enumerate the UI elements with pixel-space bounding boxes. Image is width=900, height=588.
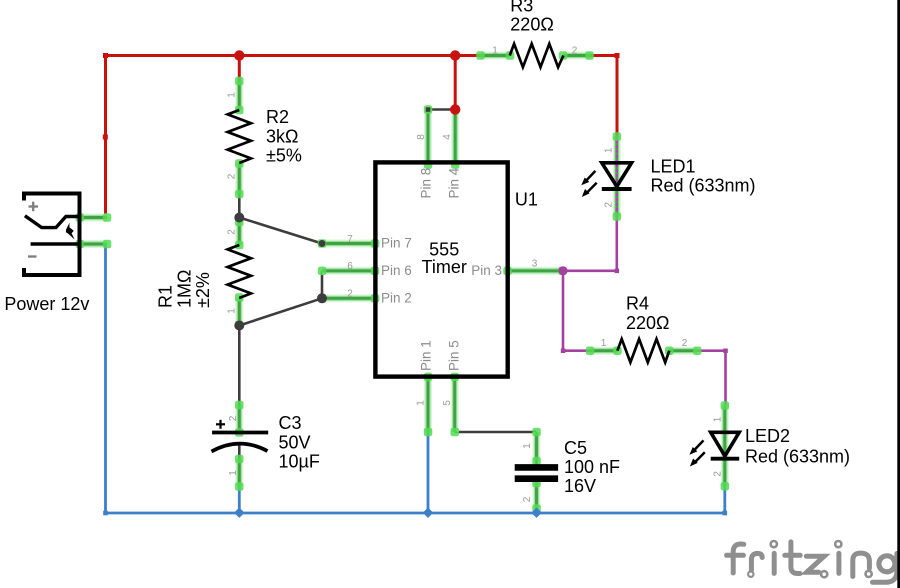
- svg-text:Red (633nm): Red (633nm): [651, 176, 756, 196]
- svg-text:C5: C5: [564, 438, 587, 458]
- svg-text:1: 1: [226, 308, 237, 314]
- svg-text:1: 1: [228, 470, 239, 476]
- svg-text:Pin 3: Pin 3: [471, 263, 502, 278]
- svg-text:4: 4: [442, 134, 453, 140]
- svg-text:220Ω: 220Ω: [626, 313, 670, 333]
- svg-text:1: 1: [604, 147, 615, 153]
- svg-text:Red (633nm): Red (633nm): [745, 447, 850, 467]
- svg-text:6: 6: [347, 261, 353, 272]
- svg-text:Pin 1: Pin 1: [419, 340, 434, 371]
- svg-text:LED2: LED2: [745, 426, 790, 446]
- svg-text:1: 1: [522, 443, 533, 449]
- svg-text:7: 7: [347, 234, 353, 245]
- svg-text:2: 2: [347, 289, 353, 300]
- svg-text:C3: C3: [279, 413, 302, 433]
- svg-text:2: 2: [572, 46, 578, 57]
- svg-text:2: 2: [604, 201, 615, 207]
- svg-text:Timer: Timer: [422, 257, 467, 277]
- svg-text:2: 2: [226, 229, 237, 235]
- svg-text:U1: U1: [515, 189, 538, 209]
- svg-text:Pin 6: Pin 6: [381, 263, 412, 278]
- svg-text:5: 5: [442, 400, 453, 406]
- svg-text:220Ω: 220Ω: [510, 15, 554, 35]
- svg-text:2: 2: [228, 415, 239, 421]
- svg-text:R1: R1: [156, 285, 176, 308]
- svg-text:2: 2: [682, 338, 688, 349]
- svg-text:10µF: 10µF: [279, 452, 320, 472]
- svg-text:16V: 16V: [564, 476, 596, 496]
- svg-text:R2: R2: [266, 107, 289, 127]
- svg-text:Power 12v: Power 12v: [4, 294, 89, 314]
- svg-text:Pin 5: Pin 5: [447, 340, 462, 371]
- svg-text:1: 1: [416, 400, 427, 406]
- svg-text:3kΩ: 3kΩ: [266, 127, 298, 147]
- svg-text:Pin 7: Pin 7: [381, 236, 412, 251]
- svg-text:±5%: ±5%: [266, 146, 302, 166]
- svg-text:2: 2: [522, 496, 533, 502]
- svg-text:Pin 8: Pin 8: [419, 168, 434, 199]
- svg-text:LED1: LED1: [651, 157, 696, 177]
- svg-text:1: 1: [601, 338, 607, 349]
- svg-text:±2%: ±2%: [193, 272, 213, 308]
- svg-text:2: 2: [226, 173, 237, 179]
- svg-text:1: 1: [226, 92, 237, 98]
- svg-text:50V: 50V: [279, 433, 311, 453]
- svg-text:Pin 4: Pin 4: [447, 167, 462, 198]
- svg-text:Pin 2: Pin 2: [381, 290, 412, 305]
- svg-text:1: 1: [713, 416, 724, 422]
- svg-text:100 nF: 100 nF: [564, 457, 620, 477]
- svg-text:1: 1: [492, 46, 498, 57]
- svg-text:R4: R4: [626, 294, 649, 314]
- svg-text:2: 2: [713, 471, 724, 477]
- svg-text:R3: R3: [510, 0, 533, 16]
- svg-text:8: 8: [416, 134, 427, 140]
- svg-text:3: 3: [532, 259, 538, 270]
- svg-text:1MΩ: 1MΩ: [175, 270, 195, 308]
